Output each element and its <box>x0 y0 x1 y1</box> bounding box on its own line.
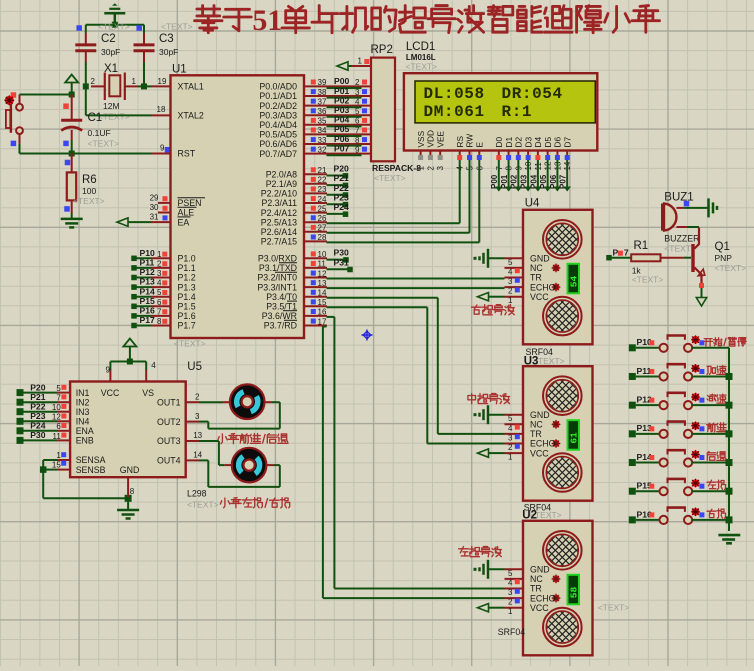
svg-text:X1: X1 <box>104 63 118 75</box>
label 小车前进/后退 <box>218 434 288 444</box>
U1 pin name P3.6/WR <box>262 311 297 321</box>
U5 pin name IN2 <box>76 397 90 407</box>
svg-text:30pF: 30pF <box>101 47 120 57</box>
LCD pin 4 RS <box>455 136 465 171</box>
wire P3.3 to U4 ECHO <box>304 279 505 288</box>
U4 pin 5 stub <box>505 258 524 267</box>
svg-text:LCD1: LCD1 <box>406 41 435 53</box>
wire Q1 emitter to ground terminal <box>696 288 706 306</box>
svg-text:P15: P15 <box>140 296 156 306</box>
svg-text:28: 28 <box>318 233 327 242</box>
svg-text:P2.5/A13: P2.5/A13 <box>261 217 297 227</box>
svg-text:D1: D1 <box>504 137 514 148</box>
svg-text:3: 3 <box>355 88 360 97</box>
svg-text:DL:058: DL:058 <box>424 85 485 103</box>
svg-text:7: 7 <box>624 248 629 258</box>
U1 pin name P1.2 <box>178 273 196 283</box>
pin number 5 <box>56 384 61 393</box>
svg-text:12: 12 <box>52 413 61 422</box>
net label P30 <box>30 430 46 440</box>
svg-text:2: 2 <box>157 259 162 268</box>
svg-text:13: 13 <box>318 279 327 288</box>
label 加速 <box>707 366 726 375</box>
wire P3.0 net stub P30 <box>304 248 349 263</box>
pin number 2 OUT1 <box>195 393 200 402</box>
svg-text:DR:054: DR:054 <box>502 85 563 103</box>
svg-text:2: 2 <box>508 443 513 452</box>
red square P1.4 <box>162 290 167 295</box>
label SRF04 (U2) <box>498 627 525 637</box>
svg-text:<TEXT>: <TEXT> <box>374 173 406 183</box>
red square P1.5 <box>162 300 167 305</box>
svg-text:P16: P16 <box>140 306 156 316</box>
node: C2/C3 top wire <box>86 22 144 28</box>
blue square R6 top <box>65 160 71 166</box>
ultrasonic sensor U4 SRF04 <box>523 210 601 344</box>
wire P0.7 to RP2 pin 9 <box>304 154 371 156</box>
label 中超声波 <box>468 394 510 404</box>
red square P1.0 <box>162 252 167 257</box>
U2 pin name NC <box>530 574 543 584</box>
svg-text:3: 3 <box>508 433 513 442</box>
U3 pin name ECHO <box>530 439 556 449</box>
U5 pin name VCC <box>101 388 120 398</box>
svg-text:32: 32 <box>318 145 327 154</box>
svg-text:NC: NC <box>530 263 543 273</box>
U4 pin 1 stub <box>505 296 524 305</box>
LCD text line 1 DL:058 DR:054 <box>424 85 563 103</box>
pin number 15 SENSB <box>52 461 66 470</box>
LCD pin 11 D4 <box>533 137 543 171</box>
label 后退 <box>707 452 726 461</box>
U2 pin 5 stub <box>505 569 524 578</box>
net label P13 <box>140 277 156 287</box>
svg-text:E: E <box>475 142 485 148</box>
U5 pin name ENB <box>76 436 94 446</box>
svg-text:P2.7/A15: P2.7/A15 <box>261 237 297 247</box>
pin number 6 <box>157 298 162 307</box>
svg-text:6: 6 <box>157 298 162 307</box>
svg-text:P0.6/AD6: P0.6/AD6 <box>259 139 297 149</box>
svg-text:VCC: VCC <box>530 448 549 458</box>
svg-text:VEE: VEE <box>435 130 445 147</box>
wire sense to GND pin 8 <box>43 477 135 502</box>
svg-text:OUT4: OUT4 <box>157 456 181 466</box>
U3 TR blue square <box>515 434 520 439</box>
svg-text:4: 4 <box>508 267 513 276</box>
svg-text:10: 10 <box>52 403 61 412</box>
U2 VCC terminal arrow <box>478 604 505 612</box>
svg-text:2: 2 <box>355 78 360 87</box>
svg-text:<TEXT>: <TEXT> <box>664 244 696 254</box>
svg-text:P06: P06 <box>334 134 350 144</box>
wire P2.0 net stub P20 <box>304 164 349 179</box>
label SRF04 (U4) <box>526 347 553 357</box>
svg-text:ALE: ALE <box>178 208 195 218</box>
svg-text:IN3: IN3 <box>76 407 90 417</box>
svg-text:P1.1: P1.1 <box>178 263 196 273</box>
U5 VCC/VS power wires <box>110 359 146 382</box>
svg-text:7: 7 <box>157 307 162 316</box>
red square on P07 label <box>618 251 623 256</box>
svg-text:54: 54 <box>569 276 580 288</box>
U1 pin name P0.5/AD5 <box>259 130 297 140</box>
svg-text:17: 17 <box>318 317 327 326</box>
svg-text:P2.3/A11: P2.3/A11 <box>261 198 297 208</box>
svg-text:P0.7/AD7: P0.7/AD7 <box>259 149 297 159</box>
U1 pin name P0.4/AD4 <box>259 120 297 130</box>
pin number 1 <box>157 250 162 259</box>
svg-text:P0.2/AD2: P0.2/AD2 <box>259 101 297 111</box>
wire R1 to Q1 base <box>661 257 692 259</box>
svg-text:7: 7 <box>56 394 61 403</box>
ground U5 <box>117 498 139 518</box>
wire P12 terminal to U1 <box>131 275 170 281</box>
U1 pin name P3.1/TXD <box>259 263 297 273</box>
svg-text:P22: P22 <box>30 402 46 412</box>
crystal X1 12M <box>91 63 138 122</box>
svg-text:VCC: VCC <box>530 292 549 302</box>
svg-text:P3.7/RD: P3.7/RD <box>264 321 297 331</box>
wire P30 terminal to U5 ENB <box>17 437 71 444</box>
label 前进 <box>707 423 727 432</box>
svg-text:IN4: IN4 <box>76 417 90 427</box>
svg-text:11: 11 <box>318 260 327 269</box>
svg-text:4: 4 <box>508 578 513 587</box>
svg-text:VCC: VCC <box>530 603 549 613</box>
svg-text:P1.2: P1.2 <box>178 273 196 283</box>
LCD pin 9 D2 <box>514 137 524 171</box>
svg-text:12M: 12M <box>103 101 120 111</box>
LCD pin 7 D0 <box>494 137 504 171</box>
svg-text:RW: RW <box>465 134 475 148</box>
wire LCD RW down to P2.6 <box>469 160 471 233</box>
svg-text:P23: P23 <box>334 192 350 202</box>
net label P11 <box>140 258 155 268</box>
svg-text:P11: P11 <box>140 258 155 268</box>
svg-text:P1.5: P1.5 <box>178 302 196 312</box>
U2 pin name GND <box>530 565 550 575</box>
U2 NC red square <box>515 579 520 584</box>
svg-text:<TEXT>: <TEXT> <box>174 339 206 349</box>
U2 pin 3 stub <box>505 588 524 597</box>
svg-text:D7: D7 <box>562 137 572 148</box>
svg-text:C3: C3 <box>159 33 174 45</box>
svg-text:ECHO: ECHO <box>530 439 556 449</box>
U4 VCC terminal arrow <box>478 293 505 301</box>
buzzer BUZ1 <box>663 192 700 254</box>
red square P1.7 <box>162 319 167 324</box>
red square U5 IN1 <box>61 385 66 390</box>
wire P2.6 to LCD RW <box>304 224 470 233</box>
wire crystal to XTAL1 <box>83 83 171 89</box>
wire P22 terminal to U5 IN3 <box>17 408 71 415</box>
svg-text:ECHO: ECHO <box>530 593 556 603</box>
red square U5 IN4 <box>61 414 66 419</box>
svg-text:4: 4 <box>157 279 162 288</box>
svg-text:P0.4/AD4: P0.4/AD4 <box>259 120 297 130</box>
capacitor C2 30pF <box>75 25 120 87</box>
label 右拐 <box>707 509 726 518</box>
U1 pin name P3.5/T1 <box>266 301 297 311</box>
LCD text line 2 DM:061 R:1 <box>424 103 533 121</box>
svg-text:5: 5 <box>508 414 513 423</box>
svg-text:XTAL1: XTAL1 <box>178 82 204 92</box>
svg-text:RESPACK-8: RESPACK-8 <box>372 163 421 173</box>
LCD pin 3 VEE <box>435 130 445 170</box>
wire P10 terminal to U1 <box>131 256 170 261</box>
svg-text:6: 6 <box>56 422 61 431</box>
U1 pin name P1.3 <box>178 282 196 292</box>
pin number 1 SENSA <box>56 451 66 460</box>
pin number 11 <box>52 432 61 441</box>
svg-text:9: 9 <box>106 366 111 375</box>
U1 pin name P3.3/INT1 <box>257 282 297 292</box>
U2 test point dots <box>552 575 561 603</box>
pin number 8 <box>157 317 162 326</box>
svg-text:U3: U3 <box>524 356 539 368</box>
logic probe red dot (button) <box>4 95 14 105</box>
svg-text:D5: D5 <box>543 137 553 148</box>
U5 pin name OUT1 <box>157 397 181 407</box>
wire P3.5 to U3 ECHO <box>304 298 505 443</box>
U5 pin name IN3 <box>76 407 90 417</box>
squares and numbers P0.3 row <box>311 105 367 116</box>
svg-text:P3.2/INT0: P3.2/INT0 <box>257 273 297 283</box>
U1 pin name XTAL1 <box>178 82 204 92</box>
pin number 13 OUT3 <box>193 431 202 440</box>
svg-text:P2.4/A12: P2.4/A12 <box>261 208 297 218</box>
squares and numbers P0.2 row <box>311 95 367 106</box>
power terminal VCC top <box>104 3 125 25</box>
svg-text:1: 1 <box>508 607 513 616</box>
svg-text:100: 100 <box>82 186 96 196</box>
svg-text:1: 1 <box>508 453 513 462</box>
svg-text:R6: R6 <box>82 174 97 186</box>
resistor pack RP2 RESPACK-8 <box>371 44 422 183</box>
svg-text:P14: P14 <box>140 286 156 296</box>
net label P24 <box>30 421 46 431</box>
pin number 4 (U5 VS) <box>151 361 156 370</box>
svg-text:3: 3 <box>508 588 513 597</box>
svg-text:1: 1 <box>132 77 137 86</box>
wire P24 terminal to U5 ENA <box>17 427 71 434</box>
U3 pin name VCC <box>530 448 549 458</box>
wire P2.3 net stub P23 <box>304 192 349 207</box>
U1 pin name P0.2/AD2 <box>259 101 297 111</box>
ultrasonic sensor U3 SRF04 <box>523 366 601 501</box>
wire P21 terminal to U5 IN2 <box>17 399 71 406</box>
svg-text:P20: P20 <box>30 382 46 392</box>
svg-text:P1.6: P1.6 <box>178 311 196 321</box>
U1 pin name P2.2/A10 <box>261 189 297 199</box>
svg-text:5: 5 <box>508 569 513 578</box>
U1 pin name P2.1/A9 <box>266 179 297 189</box>
svg-text:P2.0/A8: P2.0/A8 <box>266 169 297 179</box>
U1 pin name P2.6/A14 <box>261 227 297 237</box>
label 小车左拐/右拐 <box>220 498 289 508</box>
wire P3.7 to U2 ECHO <box>304 317 505 598</box>
svg-text:P11: P11 <box>637 366 652 376</box>
svg-text:33: 33 <box>318 136 327 145</box>
wire P2.4 net stub P24 <box>304 202 349 217</box>
label SRF04 (U3) <box>524 503 551 513</box>
U1 pin name P1.5 <box>178 302 196 312</box>
svg-text:38: 38 <box>318 88 327 97</box>
U3 VCC terminal arrow <box>478 449 505 457</box>
label 右超声波 <box>472 305 515 315</box>
wire P0.6 to RP2 pin 8 <box>304 144 371 146</box>
svg-text:16: 16 <box>318 308 327 317</box>
wire P0.5 to RP2 pin 7 <box>304 134 371 136</box>
svg-text:ECHO: ECHO <box>530 282 556 292</box>
svg-text:1: 1 <box>508 296 513 305</box>
svg-text:34: 34 <box>318 126 327 135</box>
svg-text:GND: GND <box>530 565 550 575</box>
RP2 pin 1 with power arrow <box>337 57 371 70</box>
svg-text:C2: C2 <box>101 33 116 45</box>
junction on key bus <box>726 430 733 437</box>
wire P11 terminal to U1 <box>131 265 170 271</box>
svg-text:SRF04: SRF04 <box>498 627 525 637</box>
svg-text:P24: P24 <box>334 202 350 212</box>
svg-text:8: 8 <box>130 487 135 496</box>
svg-text:P1.0: P1.0 <box>178 254 196 264</box>
label 左超声波 <box>459 547 502 557</box>
key bus vertical wire <box>728 348 730 531</box>
svg-text:14: 14 <box>193 451 202 460</box>
svg-text:C1: C1 <box>88 112 103 124</box>
U1 pin name P2.7/A15 <box>261 237 297 247</box>
svg-text:ENA: ENA <box>76 426 94 436</box>
U3 pin name GND <box>530 410 550 420</box>
svg-text:<TEXT>: <TEXT> <box>98 112 130 122</box>
U1 pin name P1.7 <box>178 321 196 331</box>
svg-text:P02: P02 <box>334 95 350 105</box>
wire P13 terminal to U1 <box>131 284 170 290</box>
label <TEXT> under L298 <box>187 500 219 510</box>
U1 pin name P2.4/A12 <box>261 208 297 218</box>
wire OUT2 loop to motor M1 right <box>186 402 280 428</box>
U3 pin 5 stub <box>505 414 524 423</box>
wire LCD D3 net label P03 <box>520 160 532 192</box>
U2 TR blue square <box>515 589 520 594</box>
pin number 18 XTAL2 <box>157 105 166 114</box>
svg-text:30pF: 30pF <box>159 47 178 57</box>
svg-text:24: 24 <box>318 195 327 204</box>
wire P0.0 to RP2 pin 2 <box>304 86 371 88</box>
svg-text:P07: P07 <box>334 143 350 153</box>
svg-text:1: 1 <box>417 166 426 171</box>
wire LCD D0 net label P00 <box>490 160 502 192</box>
push button key P11 row <box>629 364 729 381</box>
svg-text:<TEXT>: <TEXT> <box>715 263 747 273</box>
wire P0.4 to RP2 pin 6 <box>304 125 371 127</box>
pin number 7 <box>56 394 61 403</box>
wire P2.7 to LCD E <box>304 233 479 242</box>
U5 pin name SENSA <box>76 455 106 465</box>
svg-text:D3: D3 <box>523 137 533 148</box>
svg-text:P12: P12 <box>140 267 156 277</box>
junction on key bus <box>726 488 733 495</box>
svg-text:61: 61 <box>569 432 580 444</box>
svg-text:P3.6/WR: P3.6/WR <box>262 311 297 321</box>
U4 pin name GND <box>530 254 550 264</box>
svg-text:12: 12 <box>318 269 327 278</box>
motor M2 (left/right) <box>232 448 267 483</box>
svg-text:L298: L298 <box>187 489 207 499</box>
net label P20 <box>30 382 46 392</box>
svg-text:GND: GND <box>530 254 550 264</box>
push button (reset) <box>6 95 23 144</box>
net label P12 <box>140 267 156 277</box>
svg-text:RP2: RP2 <box>371 44 393 56</box>
svg-text:OUT1: OUT1 <box>157 397 181 407</box>
red square P1.6 <box>162 309 167 314</box>
svg-text:VS: VS <box>142 388 154 398</box>
svg-text:<TEXT>: <TEXT> <box>98 22 130 32</box>
blue square C1 bottom <box>63 141 69 147</box>
net label P22 <box>30 402 46 412</box>
U3 pin 4 stub <box>505 424 524 433</box>
ground below R6 <box>61 213 83 227</box>
U3 value display <box>568 420 580 450</box>
svg-text:P22: P22 <box>334 183 350 193</box>
U1 pin name XTAL2 <box>178 111 204 121</box>
U3 GND wire and ground <box>474 405 505 424</box>
pin number 10 <box>52 403 61 412</box>
U1 pin name P0.1/AD1 <box>259 91 297 101</box>
U4 NC red square <box>515 268 520 273</box>
U5 pin name OUT3 <box>157 436 181 446</box>
label <TEXT> right of U2 <box>598 603 630 613</box>
U2 pin 2 stub <box>505 598 524 607</box>
U1 pin name P2.3/A11 <box>261 198 297 208</box>
net terminal P07 to R1 <box>606 248 631 261</box>
wire LCD D4 net label P04 <box>529 160 541 192</box>
junction on key bus <box>726 402 733 409</box>
wire P2.1 net stub P21 <box>304 173 349 188</box>
red square C1 top <box>63 103 69 109</box>
pin number 29 PSEN <box>150 194 171 203</box>
U4 test point dots <box>552 264 561 292</box>
LCD LCD1 LM016L body <box>404 41 597 151</box>
wire RST to U1 <box>69 151 171 157</box>
push button key P12 row <box>629 393 729 410</box>
blue crosshair origin marker <box>362 330 373 341</box>
U1 pin name P1.4 <box>178 292 196 302</box>
svg-text:<TEXT>: <TEXT> <box>598 603 630 613</box>
wire crystal branch to XTAL2 <box>86 86 171 115</box>
svg-text:<TEXT>: <TEXT> <box>161 22 193 32</box>
svg-text:RST: RST <box>178 149 196 159</box>
pin number 6 <box>56 422 61 431</box>
svg-text:TR: TR <box>530 584 542 594</box>
svg-text:P3.0/RXD: P3.0/RXD <box>258 254 297 264</box>
svg-text:SENSB: SENSB <box>76 465 106 475</box>
U1 pin name P0.6/AD6 <box>259 139 297 149</box>
junction on key bus <box>726 459 733 466</box>
svg-text:3: 3 <box>157 269 162 278</box>
blue square R6 bottom <box>64 206 70 212</box>
net label P23 <box>30 411 46 421</box>
svg-text:P31: P31 <box>334 257 350 267</box>
U5 pin name GND <box>120 465 140 475</box>
U4 GND wire and ground <box>474 249 505 268</box>
wire P23 terminal to U5 IN4 <box>17 418 71 425</box>
U1 pin name P3.4/T0 <box>266 292 297 302</box>
power terminal for reset <box>65 75 78 95</box>
